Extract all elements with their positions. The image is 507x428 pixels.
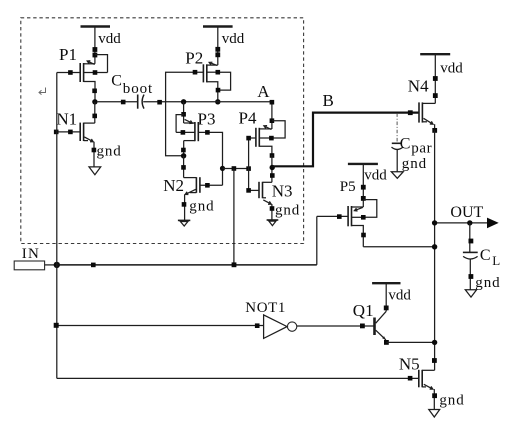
- square on P5 gate wire: [337, 214, 342, 219]
- square on Cboot right wire: [157, 100, 162, 105]
- square on N5 drain lead: [432, 358, 437, 363]
- wire P3 drain down: [183, 141, 185, 156]
- transistor P1 (PMOS): [80, 61, 107, 102]
- svg-text:N2: N2: [163, 176, 184, 195]
- transistor N5 (NMOS): [419, 370, 435, 410]
- wire node B (thick): [272, 113, 419, 167]
- wire N3 gate: [249, 189, 259, 191]
- square junction gate bus at P4/N3 vertical: [246, 166, 251, 171]
- square on N1 source lead: [92, 148, 97, 153]
- wire N5 gate bus (bottom): [57, 377, 419, 379]
- svg-text:C: C: [480, 247, 491, 264]
- square on N2 drain lead: [181, 165, 186, 170]
- wire CL tap vertical: [469, 223, 471, 252]
- node dot Q1 emitter at output vertical: [432, 340, 437, 345]
- junction squares on P1 vdd lead: [93, 47, 98, 57]
- wire P4 gate: [249, 137, 256, 139]
- wire IN horizontal bus: [57, 264, 317, 266]
- svg-text:P4: P4: [239, 109, 257, 128]
- square on N5 gate wire: [408, 376, 413, 381]
- wire vdd lead to P1 source: [94, 27, 96, 64]
- square on P4 gate wire: [246, 136, 251, 141]
- wire NOT1 input line: [57, 325, 264, 327]
- stray return-arrow mark: [39, 88, 46, 95]
- square below B node: [270, 173, 275, 178]
- square on N3 source lead: [270, 206, 275, 211]
- ground symbol (CL): [465, 290, 476, 297]
- dashed bootstrap block boundary: [21, 18, 304, 244]
- wire Cpar dash-dot tap: [396, 113, 398, 142]
- node dot P1 drain / Cboot: [92, 99, 97, 104]
- ground symbol (N1): [89, 167, 101, 175]
- wire vdd lead to P2 source: [217, 27, 219, 66]
- svg-text:C: C: [400, 136, 411, 153]
- square on IN bus at gate-bus drop: [232, 262, 237, 267]
- svg-text:N4: N4: [408, 77, 429, 96]
- svg-text:gnd: gnd: [189, 199, 214, 215]
- wire OUT: [435, 222, 488, 224]
- square on N1 gate wire: [68, 130, 73, 135]
- vdd rail bar (N4): [420, 53, 450, 55]
- square on N5 source lead: [432, 393, 437, 398]
- svg-text:gnd: gnd: [97, 143, 122, 159]
- svg-text:OUT: OUT: [450, 204, 483, 221]
- svg-text:Q1: Q1: [353, 301, 374, 320]
- transistor P5 (PMOS): [348, 206, 363, 247]
- P5 bulk loop wire: [363, 200, 377, 218]
- wire IN box to node: [45, 264, 57, 266]
- IN terminal box: [14, 261, 44, 270]
- transistor N3 (NMOS): [259, 182, 272, 220]
- wire P3 drain to N2 drain: [183, 156, 185, 178]
- Cboot label: [111, 73, 153, 98]
- svg-text:N3: N3: [272, 181, 293, 200]
- square junction on IN vertical at N1 gate: [54, 130, 59, 135]
- square on P5 drain lead: [361, 233, 366, 238]
- square on B wire at N4 gate: [408, 110, 413, 115]
- square junction IN drop on gate bus: [232, 166, 237, 171]
- svg-text:C: C: [111, 73, 122, 90]
- P2 bulk square: [216, 70, 221, 75]
- node dot OUT at CL tap: [467, 220, 472, 225]
- square on CL ground lead: [469, 274, 474, 279]
- square on P1 gate wire: [68, 70, 73, 75]
- P3 bulk square: [181, 130, 186, 135]
- svg-text:NOT1: NOT1: [245, 300, 286, 316]
- wire CL to ground: [469, 259, 471, 290]
- square junction NOT1 input at IN vertical: [54, 323, 59, 328]
- ground symbol (N3): [267, 220, 279, 226]
- square on P4 source lead: [270, 118, 275, 123]
- transistor P4 (PMOS): [256, 126, 272, 155]
- svg-text:vdd: vdd: [98, 31, 121, 47]
- wire P5 drain to output node: [363, 246, 434, 248]
- wire NOT1 output to Q1 base: [297, 325, 375, 327]
- wire node A line (left of Cboot): [98, 101, 137, 103]
- ground symbol (Cpar): [391, 172, 403, 179]
- svg-text:gnd: gnd: [402, 156, 427, 172]
- svg-text:P2: P2: [185, 48, 203, 67]
- svg-text:gnd: gnd: [439, 393, 464, 409]
- node dot P2 drain on A line: [215, 99, 220, 104]
- node dot P3 drain / P2 gate: [181, 153, 186, 158]
- P3 bulk loop wire: [176, 115, 184, 133]
- P2 bulk loop wire: [218, 72, 231, 90]
- svg-text:par: par: [411, 141, 432, 157]
- capacitor CL: [463, 252, 478, 259]
- ground symbol (N5): [429, 410, 440, 418]
- square on P3 drain lead: [181, 148, 186, 153]
- wire Cpar to ground: [396, 150, 398, 172]
- P5 bulk square: [361, 215, 366, 220]
- junction squares on P5 vdd lead: [361, 185, 366, 201]
- svg-text:vdd: vdd: [388, 287, 411, 303]
- square on P1 drain lead: [92, 89, 97, 94]
- transistor N1 (NMOS): [80, 123, 95, 167]
- square on CL lead: [469, 239, 474, 244]
- square on P3 source lead: [181, 112, 186, 117]
- wire A corner down to P4 source: [271, 102, 273, 129]
- wire IN vertical (to P1/N1 gates and lower bus): [56, 73, 58, 379]
- wire N5 drain from output vertical: [422, 369, 434, 371]
- square on P2 drain lead: [216, 88, 221, 93]
- P1 gate wire: [57, 72, 80, 74]
- wire IN riser to P5 gate: [316, 216, 318, 264]
- wire gate bus horizontal to P4/N3 gates: [223, 168, 249, 170]
- wire P4 drain to N3 drain: [271, 155, 273, 182]
- node dot OUT at output vertical: [432, 220, 437, 225]
- square at A corner: [270, 100, 275, 105]
- wire Q1 emitter to output vertical: [386, 341, 434, 343]
- wire vdd lead to N4 drain: [434, 54, 436, 103]
- svg-text:gnd: gnd: [275, 203, 300, 219]
- vdd rail bar (P2): [203, 25, 233, 27]
- svg-text:P3: P3: [198, 109, 216, 128]
- square on N2 gate wire: [205, 183, 210, 188]
- capacitor Cpar: [392, 143, 403, 149]
- vdd rail bar (P1): [81, 25, 111, 27]
- svg-text:B: B: [323, 91, 334, 110]
- vdd rail bar (P5): [348, 163, 378, 165]
- svg-text:gnd: gnd: [475, 275, 500, 291]
- svg-text:P5: P5: [340, 179, 356, 195]
- square on N3 gate wire: [246, 188, 251, 193]
- transistor Q1 (BJT): [375, 311, 387, 340]
- transistor P3 (PMOS, mirrored): [176, 119, 198, 141]
- node dot IN: [54, 262, 60, 268]
- svg-text:P1: P1: [59, 45, 77, 64]
- svg-text:vdd: vdd: [222, 31, 245, 47]
- square on Cboot left wire: [121, 100, 126, 105]
- P4 bulk loop wire: [272, 121, 285, 138]
- transistor N4 (NMOS): [419, 102, 435, 130]
- wire P5 gate from IN riser: [317, 215, 348, 217]
- wire IN drop vertical: [233, 169, 235, 265]
- wire A-node down to P3 source: [183, 102, 185, 123]
- svg-text:A: A: [257, 82, 270, 101]
- wire Cboot right to P2/P3 block: [143, 101, 183, 103]
- OUT arrowhead: [487, 218, 499, 229]
- svg-text:N1: N1: [56, 109, 77, 128]
- P1 bulk loop wire: [95, 55, 108, 73]
- vdd rail bar (Q1): [372, 282, 400, 284]
- junction squares on N4 vdd lead: [433, 76, 438, 98]
- square on Q1 collector lead: [384, 306, 389, 311]
- Cpar label: [400, 136, 432, 157]
- svg-text:vdd: vdd: [364, 167, 387, 183]
- wire P3 gate to gate bus: [198, 132, 222, 185]
- node dot A-line at P3 drain branch: [181, 99, 186, 104]
- transistor N2 (NMOS, mirrored): [184, 177, 200, 220]
- capacitor Cboot: [138, 95, 144, 109]
- square on P3 gate wire: [205, 130, 210, 135]
- wire vdd lead to P5 source: [362, 164, 364, 207]
- transistor P2 (PMOS): [203, 62, 217, 102]
- square on P2 gate wire: [193, 70, 198, 75]
- wire N1 gate: [57, 131, 80, 133]
- square on N2 source lead: [182, 202, 187, 207]
- svg-text:IN: IN: [22, 246, 40, 262]
- ground symbol (N2): [178, 220, 190, 226]
- svg-text:N5: N5: [399, 354, 420, 373]
- node dot gate bus / IN branch: [220, 166, 225, 171]
- wire node A line (right of Cboot): [184, 101, 272, 103]
- wire N2 gate to gate bus: [200, 184, 223, 186]
- CL label: [480, 247, 500, 268]
- square on P4 drain lead: [270, 153, 275, 158]
- svg-text:vdd: vdd: [440, 61, 463, 77]
- P1 bulk square: [93, 70, 98, 75]
- wire vdd to Q1 collector: [385, 283, 387, 311]
- node dot B takeoff: [270, 165, 275, 170]
- square on Q1 emitter lead: [384, 340, 389, 345]
- P4 bulk square: [269, 136, 274, 141]
- square on IN bus (left): [91, 263, 96, 268]
- square on N1 drain lead: [92, 114, 97, 119]
- square on NOT1 input wire: [255, 323, 260, 328]
- svg-text:L: L: [492, 253, 500, 268]
- wire P4/N3 gate vertical: [248, 138, 250, 190]
- square on N4 source lead: [432, 128, 437, 133]
- node dot P5 drain at output vertical: [432, 244, 437, 249]
- wire main output vertical: [434, 130, 436, 370]
- inverter NOT1: [264, 315, 297, 339]
- wire P2 gate (loops down to P3 drain): [166, 72, 204, 156]
- square on Q1 base wire: [360, 324, 365, 329]
- junction squares on P2 vdd lead: [215, 47, 220, 57]
- wire node to N1 drain: [94, 102, 96, 123]
